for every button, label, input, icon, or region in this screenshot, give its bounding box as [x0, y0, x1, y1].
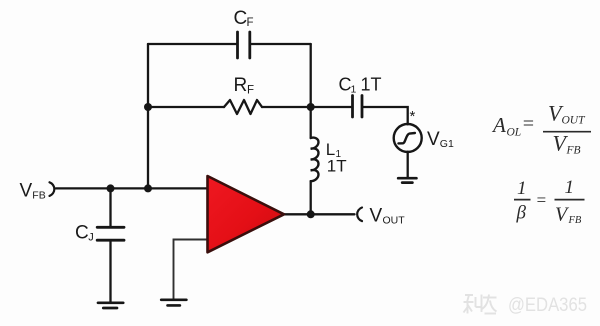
label V_OUT	[370, 206, 406, 227]
source V_G1 circle	[394, 124, 422, 152]
svg-text:A: A	[491, 113, 506, 137]
svg-text:FB: FB	[566, 145, 581, 157]
node at RF right	[307, 103, 315, 111]
ground (opamp input)	[161, 300, 186, 306]
node output	[307, 210, 315, 218]
capacitor C1 plates	[353, 96, 363, 118]
svg-text:F: F	[247, 85, 254, 97]
svg-text:FB: FB	[32, 190, 45, 202]
inductor L1 bottom wire	[310, 181, 312, 214]
inductor L1 coil	[311, 138, 319, 182]
port V_OUT arc	[357, 208, 362, 222]
wire opamp minus input	[174, 240, 208, 299]
svg-text:OUT: OUT	[383, 215, 406, 227]
svg-text:G1: G1	[440, 138, 454, 150]
label V_G1	[427, 129, 454, 150]
svg-text:V: V	[20, 181, 33, 202]
ground (source)	[398, 178, 416, 182]
wire right feedback vertical	[310, 44, 312, 107]
svg-text:=: =	[522, 113, 536, 135]
svg-text:1T: 1T	[327, 157, 347, 176]
resistor R_F zigzag	[224, 100, 262, 114]
wire CJ bottom	[109, 240, 111, 301]
svg-text:C: C	[234, 8, 248, 29]
port V_FB arc	[50, 182, 55, 196]
wire output	[284, 213, 355, 215]
label C1 1T	[339, 75, 382, 96]
source V_G1 ramp symbol	[398, 133, 415, 143]
node input feedback	[144, 184, 152, 192]
wire input	[56, 187, 208, 189]
wire RF left	[148, 106, 224, 108]
svg-text:R: R	[234, 75, 248, 96]
wire CT right	[362, 107, 408, 124]
watermark zhihu @EDA365	[464, 295, 497, 314]
svg-text:@EDA365: @EDA365	[508, 295, 587, 316]
wire source to ground	[407, 152, 409, 177]
svg-text:1: 1	[351, 84, 357, 96]
svg-text:OUT: OUT	[562, 115, 587, 127]
ground (CJ)	[98, 303, 123, 308]
svg-text:V: V	[370, 206, 383, 227]
wire RF right	[262, 106, 311, 108]
node input CJ	[107, 184, 115, 192]
capacitor C_F plates	[238, 32, 250, 58]
svg-text:V: V	[427, 129, 440, 150]
inductor L1 top wire	[310, 107, 312, 138]
svg-text:OL: OL	[507, 127, 522, 139]
label C_F	[234, 8, 254, 29]
svg-text:β: β	[516, 203, 527, 224]
svg-text:J: J	[88, 232, 94, 244]
svg-text:*: *	[410, 108, 416, 125]
formula A_OL = V_OUT / V_FB	[491, 101, 591, 157]
svg-text:FB: FB	[568, 215, 582, 226]
svg-text:=: =	[536, 191, 547, 210]
label L1	[326, 140, 342, 160]
svg-text:1: 1	[565, 177, 575, 198]
label V_FB	[20, 181, 46, 202]
label C_J	[75, 223, 94, 244]
wire CJ top	[109, 188, 111, 227]
formula 1/beta = 1/V_FB	[514, 177, 585, 226]
svg-text:1: 1	[517, 178, 527, 199]
svg-text:F: F	[247, 17, 254, 29]
wire left feedback vertical	[147, 44, 149, 188]
svg-text:1T: 1T	[361, 75, 382, 95]
wire top feedback left segment	[148, 43, 238, 45]
svg-text:C: C	[75, 223, 89, 244]
wire CT left	[311, 106, 353, 108]
wire top feedback right segment	[250, 43, 311, 45]
label R_F	[234, 75, 255, 97]
capacitor C_J plates	[97, 227, 124, 240]
node at RF left	[144, 103, 152, 111]
